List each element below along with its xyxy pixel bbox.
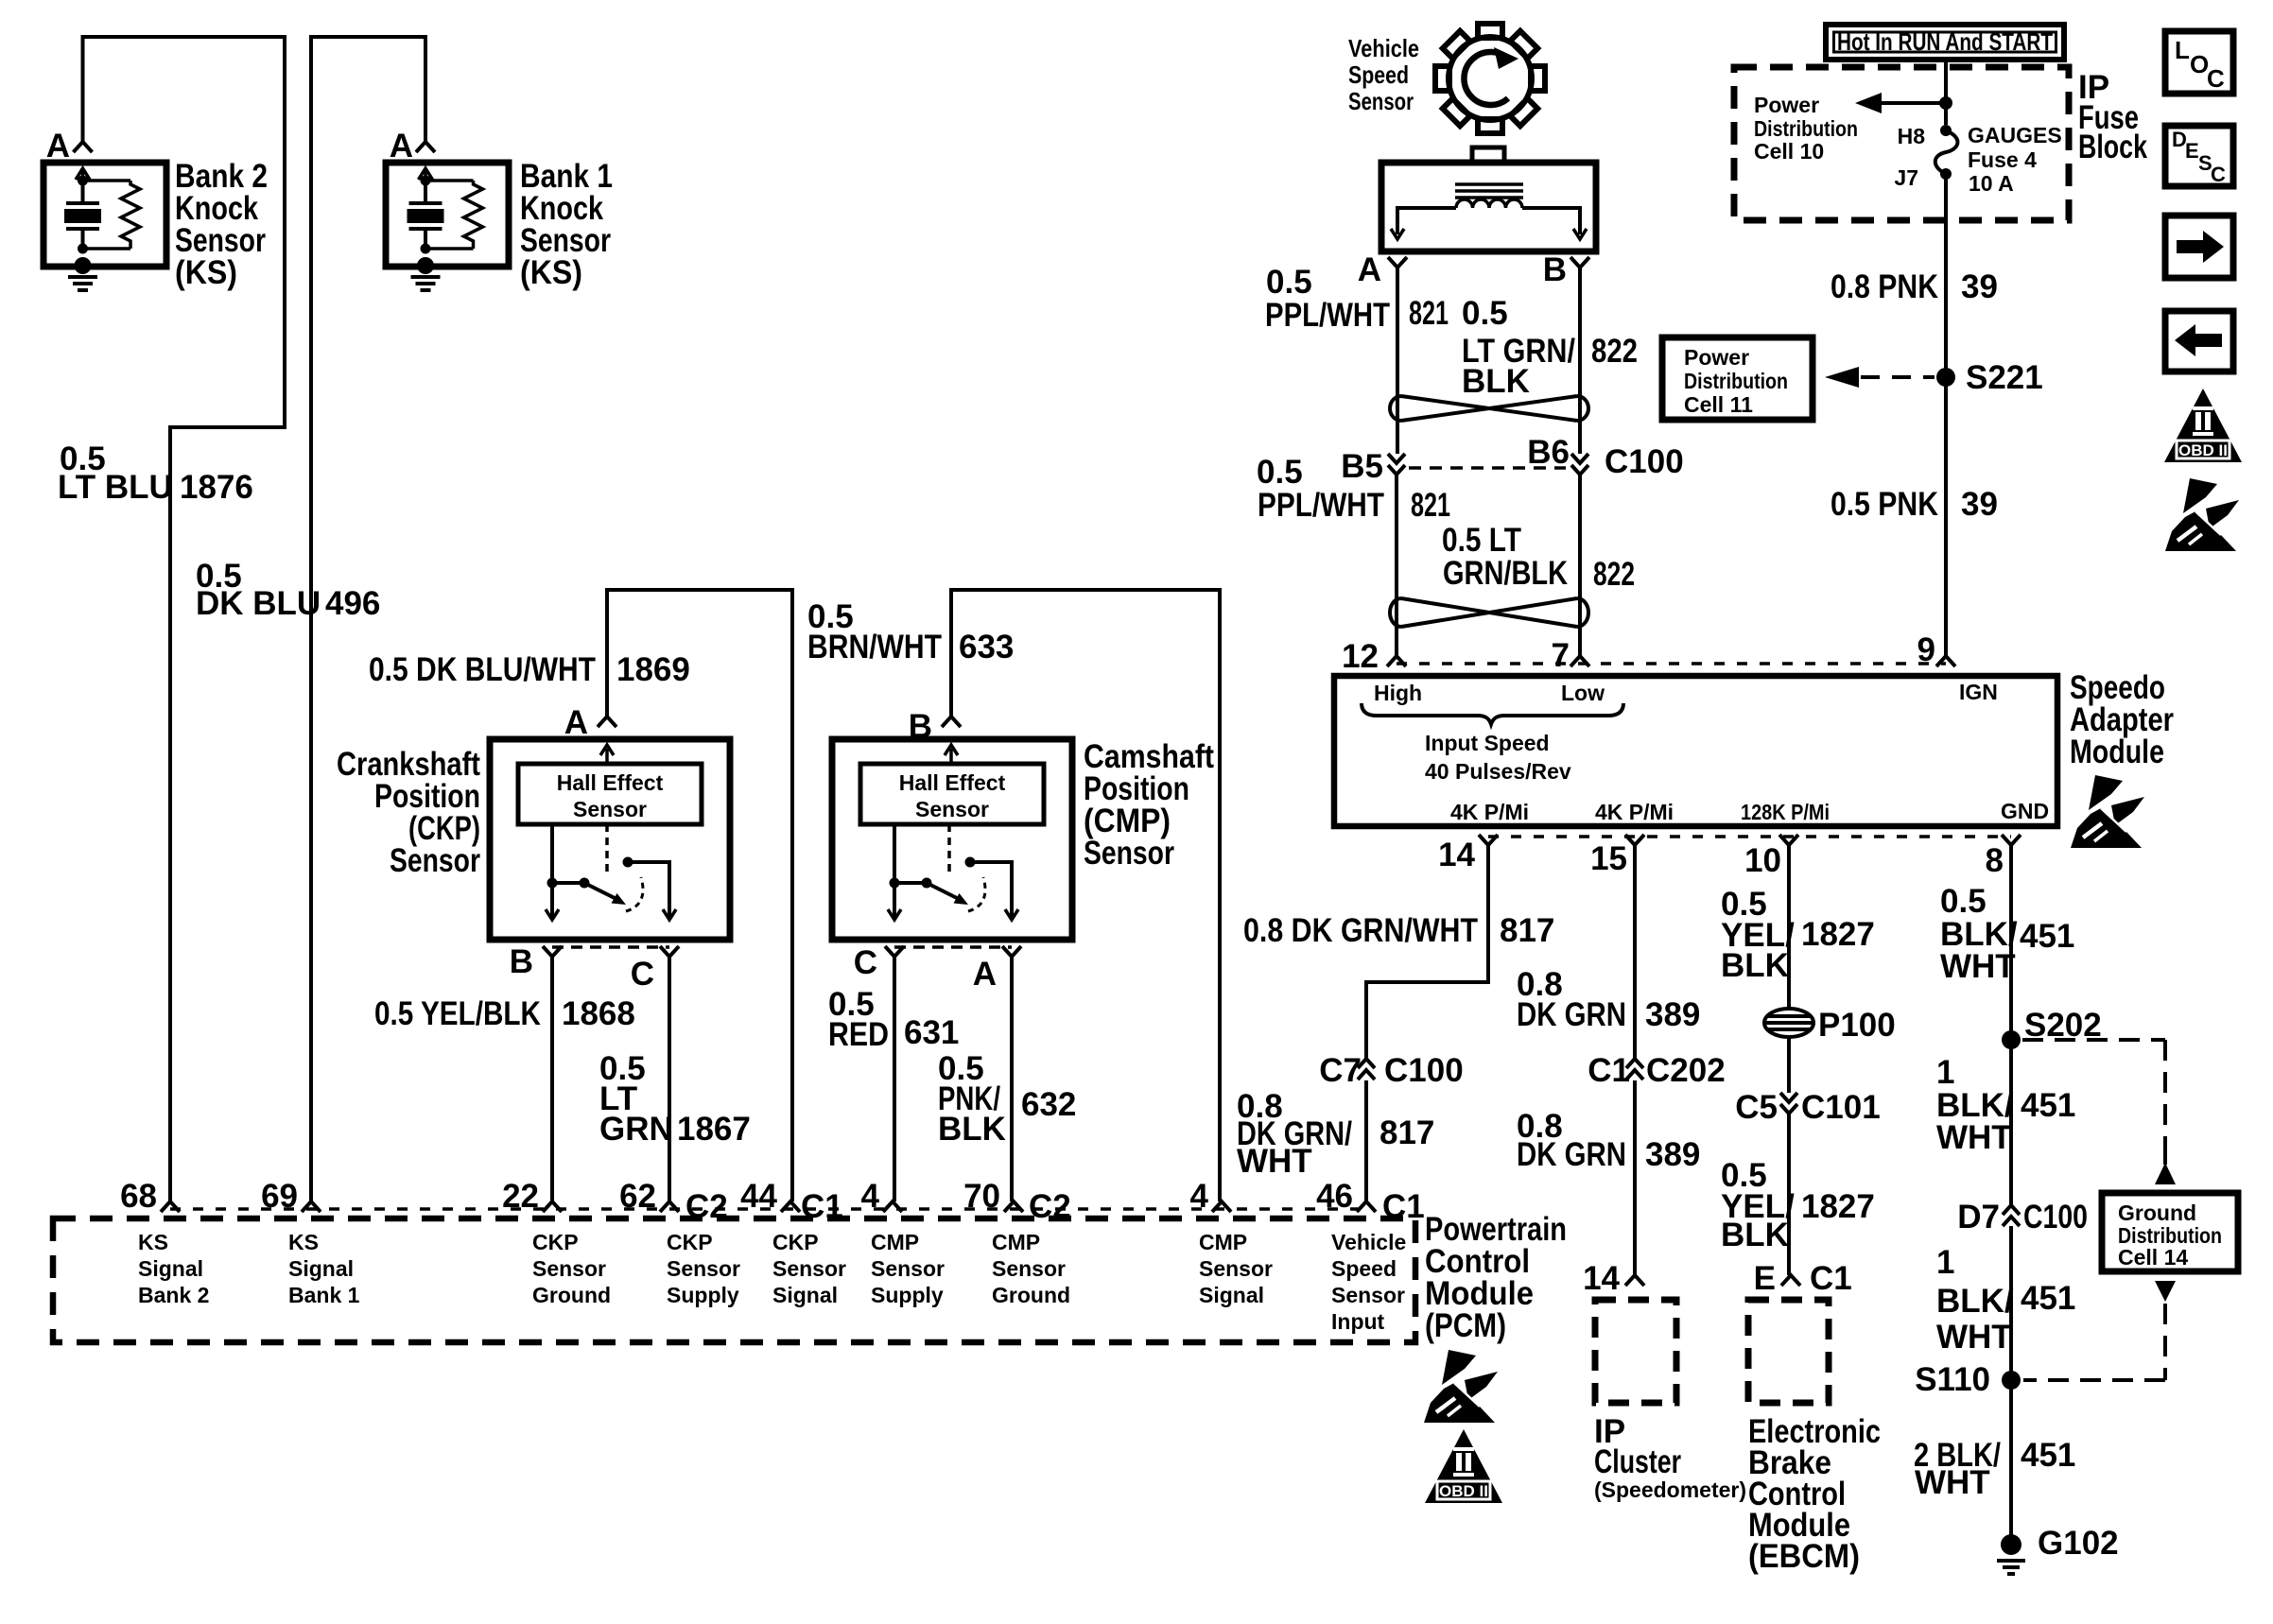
svg-text:C101: C101 xyxy=(1801,1089,1881,1126)
internal dashed control line xyxy=(947,824,951,877)
svg-text:S221: S221 xyxy=(1966,359,2043,396)
svg-text:WHT: WHT xyxy=(1936,1319,2012,1356)
pin 69 (PCM) xyxy=(302,1201,321,1212)
label: Bank 1 Knock Sensor (KS) xyxy=(520,158,613,291)
svg-text:G102: G102 xyxy=(2038,1525,2119,1562)
svg-text:0.5 PNK: 0.5 PNK xyxy=(1831,486,1938,523)
LOC reference box xyxy=(2165,31,2233,94)
PCM dashed body xyxy=(53,1218,1415,1342)
wire: fuse to speedo pin 9 (PNK 39) xyxy=(1944,174,1948,656)
svg-text:A: A xyxy=(46,128,70,164)
svg-text:Cluster: Cluster xyxy=(1594,1443,1681,1480)
svg-text:Sensor: Sensor xyxy=(871,1256,945,1281)
svg-text:8: 8 xyxy=(1986,842,2004,879)
ground (Bank 1 KS case) xyxy=(417,257,434,274)
internal arrow up xyxy=(76,168,90,181)
svg-text:451: 451 xyxy=(2021,1087,2075,1124)
internal wire to pin A xyxy=(970,862,1012,917)
ground G102 xyxy=(2001,1534,2021,1555)
wire label 0.5 PNK/BLK xyxy=(938,1050,1006,1148)
svg-text:Vehicle: Vehicle xyxy=(1331,1230,1406,1254)
svg-text:(Speedometer): (Speedometer) xyxy=(1594,1477,1746,1502)
svg-text:Bank 1: Bank 1 xyxy=(288,1283,360,1307)
svg-text:BRN/WHT: BRN/WHT xyxy=(807,629,942,665)
label: Power Distribution Cell 10 xyxy=(1754,93,1858,164)
svg-text:Sensor: Sensor xyxy=(1199,1256,1273,1281)
connector dashed line at CMP C/A xyxy=(894,945,1012,949)
pin function label CKP Sensor Supply xyxy=(667,1230,740,1307)
svg-text:IGN: IGN xyxy=(1959,680,1998,704)
pin function label CKP Sensor Signal xyxy=(772,1230,846,1307)
svg-text:C1: C1 xyxy=(1588,1052,1630,1089)
svg-text:496: 496 xyxy=(325,585,380,622)
svg-text:631: 631 xyxy=(904,1014,959,1051)
svg-text:CKP: CKP xyxy=(772,1230,819,1254)
switch travel arc (dashed) xyxy=(626,877,643,911)
wire: speedo pin 8 to G102 (BLK/WHT 451) xyxy=(2009,845,2013,1535)
wire label 0.5 LT GRN xyxy=(599,1050,673,1148)
wire: VSS A to speedo pin 12 (0.5 PPL/WHT 821) xyxy=(1397,268,1397,656)
svg-text:Sensor: Sensor xyxy=(1348,87,1414,115)
svg-text:WHT: WHT xyxy=(1936,1119,2012,1156)
switch contact node xyxy=(623,857,633,868)
VSS pickup core xyxy=(1455,184,1523,198)
twisted pair symbol (lower) xyxy=(1390,598,1588,627)
resistor (internal, parallel) xyxy=(83,181,141,249)
wire label 0.5 LT GRN/BLK (lower) xyxy=(1442,522,1568,592)
pin B (CMP) xyxy=(942,717,961,727)
svg-text:Hall Effect: Hall Effect xyxy=(899,770,1006,795)
svg-text:0.5 LT: 0.5 LT xyxy=(1442,522,1521,559)
wire: CMP pin A to PCM pin 70 (0.5 PNK/BLK 632) xyxy=(1010,957,1014,1201)
wire: speedo pin 15 to IP cluster pin 14 (0.8 DK GRN 389) xyxy=(1633,845,1637,1275)
svg-text:0.8 PNK: 0.8 PNK xyxy=(1831,268,1938,305)
svg-text:B6: B6 xyxy=(1527,434,1570,471)
connector C100 pin D7 xyxy=(2003,1205,2020,1226)
svg-text:821: 821 xyxy=(1411,487,1450,524)
splice S221 xyxy=(1936,368,1955,387)
svg-text:C100: C100 xyxy=(2023,1199,2088,1235)
wire: battery feed into fuse block xyxy=(1944,60,1948,125)
svg-text:A: A xyxy=(564,704,588,741)
svg-text:Sensor: Sensor xyxy=(390,842,480,879)
node: internal top junction xyxy=(421,176,431,186)
pin function label Vehicle Speed Sensor Input xyxy=(1331,1230,1406,1334)
connector C100 pin C7 xyxy=(1358,1059,1375,1080)
svg-text:(PCM): (PCM) xyxy=(1425,1307,1506,1344)
svg-text:D7: D7 xyxy=(1957,1199,2000,1235)
svg-text:14: 14 xyxy=(1438,837,1475,873)
switch pivot nodes xyxy=(547,878,558,889)
svg-text:Sensor: Sensor xyxy=(1084,835,1174,872)
IP cluster dashed body xyxy=(1595,1300,1676,1403)
svg-text:(EBCM): (EBCM) xyxy=(1748,1538,1860,1575)
label: IP Cluster (Speedometer) xyxy=(1594,1413,1746,1502)
pin C (CKP) xyxy=(660,946,679,957)
svg-text:40 Pulses/Rev: 40 Pulses/Rev xyxy=(1425,759,1571,784)
svg-text:1: 1 xyxy=(1936,1244,1954,1281)
svg-text:39: 39 xyxy=(1961,268,1998,305)
svg-text:451: 451 xyxy=(2020,918,2074,955)
pin function label KS Signal Bank 1 xyxy=(288,1230,360,1307)
internal arrow up to pin A xyxy=(600,745,614,762)
pin 44 (PCM) xyxy=(781,1201,800,1212)
svg-text:L: L xyxy=(2175,36,2190,64)
svg-text:Input: Input xyxy=(1331,1309,1385,1334)
svg-text:C7: C7 xyxy=(1319,1052,1362,1089)
svg-text:Module: Module xyxy=(2070,734,2164,770)
svg-text:822: 822 xyxy=(1593,556,1635,593)
svg-text:C: C xyxy=(631,956,654,993)
svg-text:821: 821 xyxy=(1409,295,1449,332)
dashed reference: S202 to Ground Distribution Cell 14 xyxy=(2022,1038,2165,1042)
svg-text:H8: H8 xyxy=(1898,124,1926,148)
pin 4 (PCM, CMP supply) xyxy=(883,1201,902,1212)
svg-text:389: 389 xyxy=(1645,996,1700,1033)
svg-text:Ground: Ground xyxy=(2118,1201,2196,1225)
piezo element xyxy=(66,181,99,247)
svg-text:Signal: Signal xyxy=(772,1283,838,1307)
label: Vehicle Speed Sensor xyxy=(1348,34,1419,115)
CMP sensor body xyxy=(832,739,1072,940)
svg-text:LT BLU: LT BLU xyxy=(58,469,173,506)
OBD II symbol (legend) xyxy=(2164,389,2242,462)
connector dashed line B5-B6 xyxy=(1409,466,1566,470)
svg-text:0.5: 0.5 xyxy=(1266,264,1312,301)
wire: Bank 1 KS pin A to PCM pin 69 (0.5 DK BLU 496) xyxy=(311,37,425,1201)
VSS internal leads with arrows xyxy=(1397,208,1580,234)
svg-text:10 A: 10 A xyxy=(1969,171,2014,196)
ESD symbol (speedo) xyxy=(2071,775,2144,848)
svg-text:E: E xyxy=(1754,1260,1776,1297)
pin 12 (speedo) xyxy=(1387,656,1406,666)
pin 62 (PCM) xyxy=(660,1201,679,1212)
svg-text:817: 817 xyxy=(1500,912,1554,949)
wire label 0.5 BLK/ WHT xyxy=(1940,883,2018,985)
wire label 0.8 DK GRN (upper) xyxy=(1517,966,1626,1033)
wire: CKP pin C to PCM pin 62 (0.5 LT GRN 1867) xyxy=(668,957,671,1201)
svg-text:C5: C5 xyxy=(1735,1089,1778,1126)
svg-text:PPL/WHT: PPL/WHT xyxy=(1258,487,1384,524)
node: internal top junction xyxy=(78,176,88,186)
label: Crankshaft Position (CKP) Sensor xyxy=(337,746,480,879)
Power Distribution Cell 11 box xyxy=(1662,337,1813,420)
svg-text:BLK: BLK xyxy=(938,1111,1006,1148)
internal arrow up xyxy=(419,168,433,181)
wire: VSS B to speedo pin 7 (0.5 LT GRN/BLK 822) xyxy=(1578,268,1582,656)
svg-text:BLK/: BLK/ xyxy=(1936,1283,2014,1320)
switch lever arrow xyxy=(927,883,959,899)
VSS reluctor gear icon xyxy=(1435,24,1545,133)
svg-text:Sensor: Sensor xyxy=(667,1256,740,1281)
pin function label CMP Sensor Supply xyxy=(871,1230,945,1307)
pin 10 (speedo) xyxy=(1779,835,1798,845)
svg-text:BLK: BLK xyxy=(1462,363,1530,400)
svg-text:Sensor: Sensor xyxy=(1331,1283,1405,1307)
knock sensor KS Bank 1 body xyxy=(386,163,509,267)
svg-text:Bank 2: Bank 2 xyxy=(138,1283,209,1307)
svg-text:A: A xyxy=(973,956,997,993)
svg-text:0.5: 0.5 xyxy=(1257,454,1303,491)
svg-text:Vehicle: Vehicle xyxy=(1348,34,1419,62)
svg-text:10: 10 xyxy=(1744,842,1781,879)
svg-text:C202: C202 xyxy=(1646,1052,1726,1089)
pin 9 (speedo) xyxy=(1936,656,1955,666)
pin 68 (PCM) xyxy=(161,1201,180,1212)
svg-text:C: C xyxy=(2207,64,2225,93)
pin A (Bank 1 KS) xyxy=(416,142,435,152)
svg-text:1869: 1869 xyxy=(616,651,690,688)
wire: CMP pin B to PCM pin 4 (0.5 BRN/WHT 633) xyxy=(951,590,1220,1201)
wire label 0.5 RED xyxy=(828,986,889,1053)
svg-text:128K P/Mi: 128K P/Mi xyxy=(1741,800,1830,824)
svg-text:Cell 14: Cell 14 xyxy=(2118,1245,2188,1270)
svg-text:E: E xyxy=(2185,139,2199,163)
wire label 0.5 PPL/WHT (upper) xyxy=(1265,264,1390,334)
pin function label KS Signal Bank 2 xyxy=(138,1230,209,1307)
svg-text:822: 822 xyxy=(1591,333,1638,370)
svg-text:B: B xyxy=(510,943,533,980)
connector C100 pin B5 xyxy=(1388,454,1405,475)
dashed reference arrow to Power Distribution Cell 11 xyxy=(1861,375,1935,379)
pin E (EBCM) xyxy=(1781,1275,1800,1286)
svg-text:389: 389 xyxy=(1645,1136,1700,1173)
label: Bank 2 Knock Sensor (KS) xyxy=(175,158,268,291)
svg-text:Distribution: Distribution xyxy=(1754,116,1858,141)
grommet P100 xyxy=(1764,1009,1813,1037)
svg-text:68: 68 xyxy=(120,1178,157,1215)
svg-text:BLK: BLK xyxy=(1721,947,1789,984)
svg-text:Power: Power xyxy=(1684,345,1749,370)
svg-text:C: C xyxy=(854,944,877,981)
pin A (VSS) xyxy=(1388,257,1407,268)
svg-text:Signal: Signal xyxy=(1199,1283,1264,1307)
wire label 0.5 YEL/BLK (upper) xyxy=(1721,886,1795,984)
pin 22 (PCM) xyxy=(543,1201,562,1212)
svg-text:A: A xyxy=(390,128,413,164)
IP fuse block dashed box xyxy=(1734,67,2069,220)
connector C100 pin B6 xyxy=(1571,454,1588,475)
svg-text:Speed: Speed xyxy=(1348,60,1409,89)
switch pivot nodes xyxy=(890,878,900,889)
svg-text:12: 12 xyxy=(1342,638,1379,675)
wire: speedo pin 14 to PCM pin 46 (0.8 DK GRN/WHT 817) xyxy=(1366,845,1488,1201)
VSS connector tab xyxy=(1472,147,1504,163)
VSS coil xyxy=(1456,199,1522,208)
svg-text:CKP: CKP xyxy=(667,1230,713,1254)
wire: CKP pin A to PCM pin 44 (0.5 DK BLU/WHT 1869) xyxy=(607,590,792,1201)
node: internal bottom junction xyxy=(421,244,431,254)
svg-text:4K P/Mi: 4K P/Mi xyxy=(1595,800,1674,824)
wire label 0.5 LT GRN/BLK (upper) xyxy=(1462,295,1575,400)
pin A (CKP) xyxy=(598,717,616,727)
wire: speedo pin 10 to EBCM pin E (0.5 YEL/BLK 1827) xyxy=(1787,845,1791,1275)
pin function label CKP Sensor Ground xyxy=(532,1230,611,1307)
svg-text:15: 15 xyxy=(1590,840,1627,877)
svg-text:1876: 1876 xyxy=(180,469,253,506)
label: Electronic Brake Control Module (EBCM) xyxy=(1748,1413,1881,1575)
svg-text:451: 451 xyxy=(2021,1280,2075,1317)
svg-text:Cell 10: Cell 10 xyxy=(1754,139,1824,164)
svg-text:0.5 YEL/BLK: 0.5 YEL/BLK xyxy=(374,995,541,1032)
ESD symbol (PCM) xyxy=(1424,1350,1498,1423)
svg-text:Signal: Signal xyxy=(138,1256,203,1281)
svg-text:0.8 DK GRN/WHT: 0.8 DK GRN/WHT xyxy=(1243,912,1478,949)
hall effect sensor U-CMP xyxy=(860,764,1044,824)
pin C (CMP) xyxy=(885,946,904,957)
svg-text:1827: 1827 xyxy=(1801,916,1875,953)
svg-text:0.5: 0.5 xyxy=(1940,883,1987,920)
svg-text:1868: 1868 xyxy=(562,995,635,1032)
connector dashed line pins 14-15-10-8 xyxy=(1488,835,2011,838)
pin 8 (speedo) xyxy=(2002,835,2021,845)
internal wire to pin C xyxy=(893,824,896,917)
svg-text:7: 7 xyxy=(1552,637,1570,674)
svg-text:C100: C100 xyxy=(1605,443,1684,480)
internal arrow up to pin B xyxy=(945,745,958,762)
svg-text:PPL/WHT: PPL/WHT xyxy=(1265,297,1390,334)
svg-text:CMP: CMP xyxy=(992,1230,1040,1254)
fuse 4 GAUGES 10A xyxy=(1940,125,1952,136)
connector dashed line PCM pins xyxy=(170,1207,1366,1211)
pin 46 (PCM) xyxy=(1357,1201,1376,1212)
svg-text:C1: C1 xyxy=(1810,1260,1852,1297)
label: Input Speed 40 Pulses/Rev xyxy=(1425,731,1571,784)
knock sensor KS Bank 2 body xyxy=(43,163,166,267)
svg-text:GRN: GRN xyxy=(599,1111,673,1148)
label: IP Fuse Block xyxy=(2078,69,2147,165)
wire label 0.5 LT BLU 1876 xyxy=(58,441,173,506)
svg-text:39: 39 xyxy=(1961,486,1998,523)
piezo element xyxy=(409,181,442,247)
VSS body xyxy=(1381,163,1596,251)
wire label 0.5 PPL/WHT (lower) xyxy=(1257,454,1384,524)
svg-text:CMP: CMP xyxy=(871,1230,919,1254)
wire: Bank 2 KS pin A to PCM pin 68 (0.5 LT BLU 1876) xyxy=(83,37,286,1201)
label: Powertrain Control Module (PCM) xyxy=(1425,1211,1567,1344)
svg-text:A: A xyxy=(1358,251,1381,288)
svg-text:DK BLU: DK BLU xyxy=(196,585,321,622)
internal dashed control line xyxy=(605,824,609,877)
svg-text:RED: RED xyxy=(828,1016,889,1053)
svg-text:Sensor: Sensor xyxy=(573,797,647,821)
svg-text:C: C xyxy=(2211,163,2226,186)
svg-text:KS: KS xyxy=(288,1230,319,1254)
svg-text:CKP: CKP xyxy=(532,1230,579,1254)
pin B (CKP) xyxy=(543,946,562,957)
dashed reference: Ground Distribution Cell 14 to S110 xyxy=(2155,1281,2176,1302)
splice S110 xyxy=(2002,1371,2021,1390)
pin 14 (speedo) xyxy=(1479,835,1498,845)
svg-text:Signal: Signal xyxy=(288,1256,354,1281)
svg-text:1867: 1867 xyxy=(677,1111,751,1148)
svg-text:P100: P100 xyxy=(1818,1007,1896,1044)
svg-text:1: 1 xyxy=(1936,1054,1954,1091)
svg-text:Input Speed: Input Speed xyxy=(1425,731,1550,755)
svg-text:632: 632 xyxy=(1021,1086,1076,1123)
pin 15 (speedo) xyxy=(1625,835,1644,845)
CKP sensor body xyxy=(490,739,730,940)
connector C101 pin C5 xyxy=(1780,1093,1797,1114)
twisted pair symbol (upper) xyxy=(1390,396,1588,421)
svg-text:Ground: Ground xyxy=(532,1283,611,1307)
svg-text:(KS): (KS) xyxy=(520,254,582,291)
svg-text:633: 633 xyxy=(959,629,1014,665)
previous-page arrow box xyxy=(2165,311,2233,371)
switch contact node xyxy=(965,857,976,868)
svg-text:451: 451 xyxy=(2021,1437,2075,1474)
brace under High/Low xyxy=(1362,703,1623,724)
junction node in fuse block xyxy=(1939,96,1952,110)
ground (Bank 2 KS case) xyxy=(75,257,92,274)
internal wire to pin C xyxy=(628,862,669,917)
svg-text:0.5: 0.5 xyxy=(1462,295,1508,332)
svg-text:B: B xyxy=(1543,251,1567,288)
svg-text:Distribution: Distribution xyxy=(1684,369,1788,393)
svg-text:C100: C100 xyxy=(1384,1052,1464,1089)
wire label 2 BLK/ WHT xyxy=(1914,1437,2001,1501)
svg-text:Power: Power xyxy=(1754,93,1819,117)
svg-text:Speed: Speed xyxy=(1331,1256,1397,1281)
connector C202 pin C1 xyxy=(1626,1059,1643,1080)
svg-text:BLK: BLK xyxy=(1721,1217,1789,1253)
svg-text:GAUGES: GAUGES xyxy=(1968,123,2062,147)
pin 7 (speedo) xyxy=(1570,656,1589,666)
svg-text:Sensor: Sensor xyxy=(992,1256,1066,1281)
wire label 0.8 DK GRN (lower) xyxy=(1517,1108,1626,1173)
DESC reference box xyxy=(2165,126,2233,186)
svg-text:Low: Low xyxy=(1561,681,1605,705)
speedo adapter module body xyxy=(1334,676,2057,826)
svg-text:Sensor: Sensor xyxy=(915,797,989,821)
svg-text:Sensor: Sensor xyxy=(532,1256,606,1281)
pin A (Bank 2 KS) xyxy=(74,142,93,152)
fuse label GAUGES Fuse 4 10 A xyxy=(1968,123,2062,196)
wire: CMP pin C to PCM pin 4 (0.5 RED 631) xyxy=(893,957,896,1201)
svg-text:B5: B5 xyxy=(1341,448,1383,485)
svg-text:Hall Effect: Hall Effect xyxy=(557,770,664,795)
hall effect sensor U-CKP xyxy=(518,764,702,824)
svg-text:GRN/BLK: GRN/BLK xyxy=(1443,555,1568,592)
pin 14 (IP cluster) xyxy=(1625,1275,1644,1286)
svg-text:High: High xyxy=(1374,681,1422,705)
svg-text:J7: J7 xyxy=(1894,165,1918,190)
wire label 0.5 YEL/BLK (lower) xyxy=(1721,1157,1795,1253)
svg-text:Cell 11: Cell 11 xyxy=(1684,392,1753,417)
svg-text:S110: S110 xyxy=(1915,1361,1990,1398)
next-page arrow box xyxy=(2165,216,2233,278)
label: Camshaft Position (CMP) Sensor xyxy=(1084,738,1214,872)
wire label 1 BLK/ WHT (upper) xyxy=(1936,1054,2014,1156)
svg-text:817: 817 xyxy=(1379,1114,1434,1151)
pin function label CMP Sensor Ground xyxy=(992,1230,1070,1307)
Hot In RUN And START tag xyxy=(1826,25,2064,60)
svg-text:14: 14 xyxy=(1583,1260,1620,1297)
svg-text:WHT: WHT xyxy=(1915,1464,1990,1501)
svg-text:Fuse 4: Fuse 4 xyxy=(1968,147,2037,172)
svg-text:Supply: Supply xyxy=(871,1283,944,1307)
svg-text:Hot In RUN And START: Hot In RUN And START xyxy=(1837,27,2053,56)
pin 70 (PCM) xyxy=(1004,1201,1023,1212)
wire label 0.8 DK GRN/ WHT xyxy=(1237,1088,1352,1180)
svg-text:DK GRN: DK GRN xyxy=(1517,996,1626,1033)
svg-text:0.5 DK BLU/WHT: 0.5 DK BLU/WHT xyxy=(369,651,596,688)
splice S202 xyxy=(2002,1030,2021,1049)
svg-text:Supply: Supply xyxy=(667,1283,739,1307)
switch lever arrow xyxy=(584,883,616,899)
pin function label CMP Sensor Signal xyxy=(1199,1230,1273,1307)
wire label 0.5 BRN/WHT xyxy=(807,598,942,665)
